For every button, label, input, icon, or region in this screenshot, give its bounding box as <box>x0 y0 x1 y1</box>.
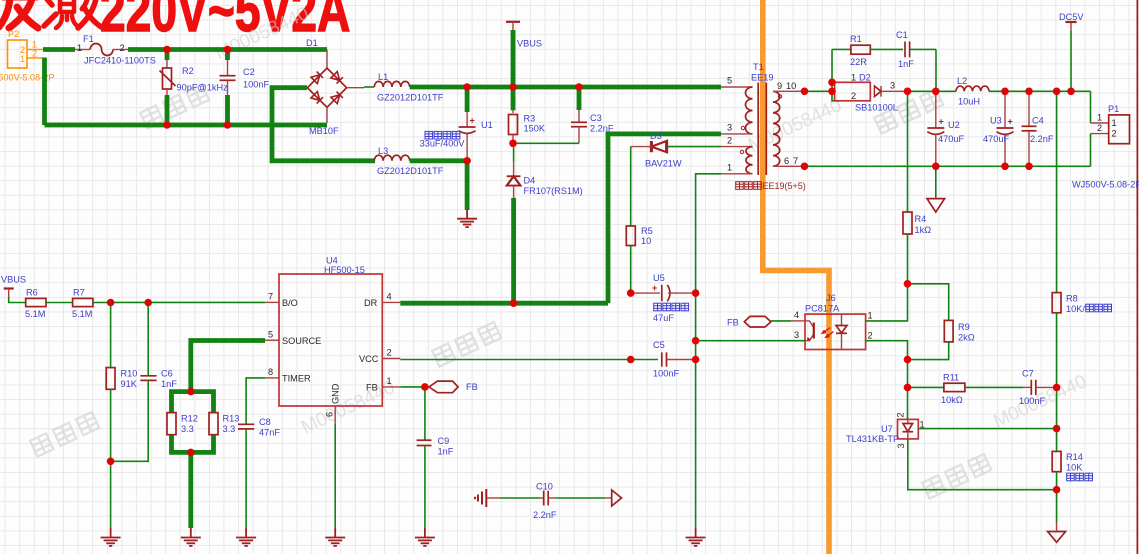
wire top AC rail <box>128 47 327 52</box>
svg-text:1nF: 1nF <box>898 59 914 69</box>
node junction U7 ref <box>1053 425 1061 433</box>
wire SOURCE net <box>191 341 265 392</box>
svg-text:33uF/400V: 33uF/400V <box>420 139 466 149</box>
optocoupler J6 PC817A <box>805 314 866 349</box>
node junction R11 row <box>904 384 912 392</box>
svg-text:2kΩ: 2kΩ <box>958 333 975 343</box>
electrolytic capacitor U3 470uF <box>1004 91 1006 127</box>
svg-text:SOURCE: SOURCE <box>282 336 321 346</box>
svg-text:2.2nF: 2.2nF <box>533 510 557 520</box>
svg-text:6: 6 <box>784 156 789 166</box>
node junction sec top <box>801 88 809 96</box>
sheet border right <box>1136 0 1138 554</box>
svg-text:VBUS: VBUS <box>517 39 542 49</box>
svg-text:GZ2012D101TF: GZ2012D101TF <box>377 166 444 176</box>
svg-text:1kΩ: 1kΩ <box>915 225 932 235</box>
node junction D2 out <box>904 88 912 96</box>
svg-text:10K: 10K <box>1066 463 1083 473</box>
svg-text:D1: D1 <box>306 38 318 48</box>
svg-text:+: + <box>1008 117 1013 127</box>
wire TIMER to C8 <box>246 378 265 424</box>
svg-text:6: 6 <box>325 412 335 417</box>
svg-text:1nF: 1nF <box>161 379 177 389</box>
wire U7 anode down and right <box>908 439 1057 490</box>
svg-text:+: + <box>939 117 944 127</box>
ground arrow bottom right <box>1048 532 1066 543</box>
resistor R4 1kOhm <box>907 91 909 212</box>
svg-text:R3: R3 <box>524 114 536 124</box>
node junction R10 <box>107 299 115 307</box>
wire opto pin3 <box>696 340 805 342</box>
svg-text:5: 5 <box>727 76 732 86</box>
svg-text:FB: FB <box>727 318 739 328</box>
wire VBUS rail <box>410 85 721 90</box>
capacitor C2 100nF <box>225 50 230 61</box>
wire transformer pin1 down <box>696 174 721 528</box>
capacitor C1 1nF <box>904 42 906 58</box>
svg-text:100nF: 100nF <box>243 80 269 90</box>
svg-text:L3: L3 <box>378 146 388 156</box>
node junction R12R13 top <box>187 388 195 396</box>
svg-text:GZ2012D101TF: GZ2012D101TF <box>377 93 444 103</box>
svg-text:C7: C7 <box>1022 369 1034 379</box>
svg-text:4: 4 <box>794 310 799 320</box>
resistor R3 150K <box>511 87 516 110</box>
svg-text:+: + <box>652 283 657 293</box>
svg-text:SB10100L: SB10100L <box>855 103 898 113</box>
svg-text:JFC2410-1100TS: JFC2410-1100TS <box>84 56 156 66</box>
wire R9 loop <box>908 284 949 321</box>
node junction D4/DR <box>510 299 518 307</box>
svg-text:100nF: 100nF <box>1019 396 1045 406</box>
diode D2 SB10100L <box>835 82 871 101</box>
resistor R8 10K <box>1056 91 1058 292</box>
bridge rectifier D1 MB10F <box>306 38 364 136</box>
node junction R14 bottom <box>1053 486 1061 494</box>
node junction bottom rail R2 <box>163 121 171 129</box>
node junction DC5V <box>1067 88 1075 96</box>
svg-text:C2: C2 <box>243 67 255 77</box>
wire FB flag to opto pin4 <box>771 320 791 322</box>
svg-text:VBUS: VBUS <box>1 275 26 285</box>
resistor R9 2kOhm <box>944 320 953 342</box>
svg-text:2: 2 <box>868 331 873 341</box>
transformer T1 EE19 <box>721 62 805 175</box>
svg-text:3: 3 <box>794 330 799 340</box>
wire to ground arrow <box>1056 490 1058 522</box>
svg-text:C8: C8 <box>259 417 271 427</box>
node junction top rail R2 <box>163 46 171 54</box>
capacitor C8 47nF <box>238 423 254 425</box>
node junction R3/C3/D4 <box>509 140 517 148</box>
svg-text:U3: U3 <box>990 116 1002 126</box>
svg-text:3: 3 <box>727 123 732 133</box>
node junction pin1/opto3 <box>692 337 700 345</box>
svg-text:P2: P2 <box>8 29 19 39</box>
electrolytic capacitor U2 470uF <box>935 91 937 127</box>
title glyph FAN <box>0 0 38 28</box>
capacitor C9 1nF <box>424 387 426 440</box>
svg-text:C6: C6 <box>161 369 173 379</box>
power flag DC5V <box>1070 31 1072 92</box>
capacitor C6 1nF <box>147 303 149 376</box>
svg-text:2.2nF: 2.2nF <box>1030 134 1054 144</box>
node junction D2 pin2 <box>828 88 836 96</box>
ground U1 <box>457 209 477 227</box>
node junction R9 bottom <box>904 356 912 364</box>
wire U4 FB pin <box>400 386 425 388</box>
ground arrow under U2 <box>935 166 937 198</box>
svg-text:+: + <box>470 116 475 126</box>
svg-text:47nF: 47nF <box>259 428 280 438</box>
svg-text:GND: GND <box>331 383 341 404</box>
svg-text:2: 2 <box>387 348 392 358</box>
svg-text:B/O: B/O <box>282 298 298 308</box>
resistor R12 3.3 <box>167 413 176 435</box>
orange route line <box>763 0 829 554</box>
resistor R5 10 <box>630 147 632 226</box>
svg-text:DC5V: DC5V <box>1059 12 1084 22</box>
resistor R14 10K <box>1052 451 1061 471</box>
wire U7 ref to R14 node <box>918 428 1056 430</box>
connector P2 <box>8 40 28 68</box>
node junction R10/C6 bottom <box>107 458 115 466</box>
wire R12R13 bottom bar <box>172 435 214 452</box>
svg-text:10K/: 10K/ <box>1066 304 1085 314</box>
svg-text:10kΩ: 10kΩ <box>941 395 963 405</box>
svg-text:1: 1 <box>1112 118 1117 128</box>
svg-text:2: 2 <box>896 412 906 417</box>
svg-text:HF500-15: HF500-15 <box>324 265 365 275</box>
svg-text:C4: C4 <box>1032 116 1044 126</box>
svg-text:J6: J6 <box>826 293 836 303</box>
diode D3 BAV21W <box>666 146 721 148</box>
resistor R11 10kOhm <box>908 386 944 388</box>
svg-text:3.3: 3.3 <box>223 424 236 434</box>
watermark wang-tian-chen left low <box>30 412 99 457</box>
node junction C4 bottom <box>1025 163 1033 171</box>
svg-text:TIMER: TIMER <box>282 374 311 384</box>
svg-text:91K: 91K <box>121 379 138 389</box>
wire U1 to ground <box>465 161 470 210</box>
resistor R10 91K <box>110 303 112 368</box>
svg-text:2: 2 <box>851 91 856 101</box>
svg-text:F1: F1 <box>83 34 94 44</box>
svg-text:7: 7 <box>793 156 798 166</box>
wire C3 bottom to R3 node <box>513 142 579 144</box>
IC U4 HF500-15 <box>279 274 382 406</box>
power flag VBUS top <box>506 21 520 23</box>
svg-text:T1: T1 <box>753 62 764 72</box>
svg-text:R12: R12 <box>181 414 198 424</box>
svg-text:10: 10 <box>786 81 796 91</box>
watermark wang-tian-chen left <box>140 84 209 129</box>
svg-text:5.1M: 5.1M <box>25 309 45 319</box>
resistor R1 22R <box>832 48 851 50</box>
wire bottom AC rail <box>45 123 328 128</box>
wire source to ground <box>188 452 193 528</box>
ground U4 <box>325 528 345 546</box>
svg-text:D4: D4 <box>524 176 536 186</box>
node junction R5/U5 <box>627 289 635 297</box>
label three-winding EE19(5+5) <box>736 181 806 191</box>
node junction U2 bottom <box>932 163 940 171</box>
node junction U1 top <box>463 83 471 91</box>
svg-text:R1: R1 <box>850 34 862 44</box>
svg-text:P1: P1 <box>1108 104 1119 114</box>
svg-text:DR: DR <box>364 298 378 308</box>
svg-text:2: 2 <box>1112 129 1117 139</box>
svg-text:R6: R6 <box>26 288 38 298</box>
svg-text:1: 1 <box>868 311 873 321</box>
ground R12R13 <box>181 528 201 546</box>
svg-text:TL431KB-TP: TL431KB-TP <box>846 434 899 444</box>
svg-text:7: 7 <box>268 292 273 302</box>
svg-text:EE19(5+5): EE19(5+5) <box>763 181 806 191</box>
svg-text:R7: R7 <box>73 288 85 298</box>
svg-text:R4: R4 <box>915 214 927 224</box>
svg-text:C10: C10 <box>536 482 553 492</box>
svg-text:47uF: 47uF <box>653 313 674 323</box>
svg-text:470uF: 470uF <box>938 134 964 144</box>
svg-text:R5: R5 <box>641 226 653 236</box>
wire P2 pin1 to fuse <box>43 47 75 52</box>
node junction bottom rail C2 <box>224 121 232 129</box>
svg-text:MB10F: MB10F <box>309 126 339 136</box>
wire opto pin1 to R4 node <box>866 284 908 321</box>
svg-text:L1: L1 <box>378 72 388 82</box>
svg-text:10: 10 <box>641 236 651 246</box>
svg-text:10uH: 10uH <box>958 97 980 107</box>
svg-text:22R: 22R <box>850 57 867 67</box>
resistor R6 5.1M <box>26 298 46 306</box>
svg-text:R8: R8 <box>1066 294 1078 304</box>
svg-text:1nF: 1nF <box>438 447 454 457</box>
node junction sec bottom <box>801 163 809 171</box>
svg-text:3.3: 3.3 <box>181 424 194 434</box>
shunt regulator U7 TL431KB-TP <box>907 419 909 424</box>
inductor L3 GZ2012D101TF <box>374 155 409 161</box>
svg-text:1: 1 <box>20 54 25 64</box>
svg-text:WJ500V-5.08-2P: WJ500V-5.08-2P <box>1072 180 1139 190</box>
svg-text:2: 2 <box>727 136 732 146</box>
wire P2 pin2 down to bottom rail <box>42 58 47 126</box>
wire snubber node vertical <box>805 90 833 92</box>
svg-text:U4: U4 <box>326 256 338 266</box>
wire output rail <box>908 90 957 92</box>
svg-text:R10: R10 <box>121 369 138 379</box>
svg-text:U2: U2 <box>948 120 960 130</box>
svg-text:R11: R11 <box>943 373 959 383</box>
node junction C4 <box>1025 88 1033 96</box>
wire drain DR line <box>400 301 608 306</box>
svg-text:U7: U7 <box>881 424 893 434</box>
svg-text:U5: U5 <box>653 273 665 283</box>
node junction R12R13 bottom <box>187 449 195 457</box>
fuse F1 JFC2410-1100TS <box>75 49 90 51</box>
svg-text:8: 8 <box>268 367 273 377</box>
node junction U3 <box>1001 88 1009 96</box>
resistor R13 3.3 <box>209 413 218 435</box>
node junction FB/C9 <box>421 383 429 391</box>
capacitor C7 100nF <box>1023 386 1031 388</box>
connector P1 WJ500V-5.08-2P <box>1090 91 1092 123</box>
wire opto pin2 down <box>866 341 908 420</box>
wire DC minus path around bridge <box>272 88 375 161</box>
wire output bottom rail <box>805 165 1091 167</box>
svg-text:1: 1 <box>77 43 82 53</box>
electrolytic capacitor U1 33uF/400V <box>465 87 470 112</box>
node junction pin1/U5 <box>692 289 700 297</box>
ground C9 <box>415 528 435 546</box>
watermark wang-tian-chen bottom right <box>922 454 991 499</box>
svg-text:C1: C1 <box>896 30 908 40</box>
svg-text:1: 1 <box>727 163 732 173</box>
node junction D2 pin1 <box>828 79 836 87</box>
svg-text:C9: C9 <box>438 436 450 446</box>
svg-text:150K: 150K <box>524 124 546 134</box>
svg-text:BAV21W: BAV21W <box>645 159 682 169</box>
node junction top rail C2 <box>224 46 232 54</box>
wire C1 down to rail <box>935 49 937 91</box>
svg-text:100nF: 100nF <box>653 369 679 379</box>
svg-text:D2: D2 <box>859 73 871 83</box>
svg-text:1: 1 <box>851 73 856 83</box>
capacitor C5 100nF <box>661 352 663 366</box>
svg-text:FR107(RS1M): FR107(RS1M) <box>524 186 583 196</box>
svg-text:1: 1 <box>1097 113 1102 123</box>
node junction C1/U2 <box>932 88 940 96</box>
node junction <box>463 157 471 165</box>
svg-text:L2: L2 <box>957 76 967 86</box>
inductor L2 10uH <box>956 86 989 91</box>
svg-text:R9: R9 <box>958 322 970 332</box>
svg-text:VCC: VCC <box>359 354 379 364</box>
node junction C6 <box>144 299 152 307</box>
wire output rail after L2 <box>989 90 1091 92</box>
svg-text:2: 2 <box>32 49 37 59</box>
svg-text:R13: R13 <box>223 414 240 424</box>
wire drain vertical to transformer pin3 <box>608 134 721 303</box>
node junction C7/R8 <box>1053 384 1061 392</box>
net flag FB left <box>429 381 458 393</box>
svg-text:3: 3 <box>896 443 906 448</box>
watermark wang-tian-chen near D2 <box>874 89 943 134</box>
svg-text:3: 3 <box>890 81 895 91</box>
ground R10 <box>101 528 121 546</box>
capacitor C3 2.2nF <box>577 87 582 110</box>
svg-text:FB: FB <box>366 383 378 393</box>
capacitor C4 2.2nF <box>1028 91 1030 126</box>
node junction pin1/C5 <box>692 356 700 364</box>
svg-text:9: 9 <box>777 81 782 91</box>
svg-text:4: 4 <box>387 292 392 302</box>
svg-text:R14: R14 <box>1066 452 1083 462</box>
ground bias winding <box>686 528 706 546</box>
electrolytic capacitor U5 47uF <box>631 292 660 294</box>
svg-text:U1: U1 <box>481 120 493 130</box>
wire R12R13 top bar <box>172 392 214 412</box>
node junction VBUS/R3 <box>509 83 517 91</box>
title glyph JI <box>44 0 103 28</box>
svg-text:C5: C5 <box>653 340 665 350</box>
svg-text:D3: D3 <box>650 131 662 141</box>
node junction C3 top <box>575 83 583 91</box>
capacitor C10 2.2nF with chassis and antenna <box>475 482 622 521</box>
svg-text:C3: C3 <box>590 113 602 123</box>
ground C8 <box>236 528 256 546</box>
svg-text:90pF@1kHz: 90pF@1kHz <box>177 83 229 93</box>
svg-text:5.1M: 5.1M <box>72 309 92 319</box>
wire D4 to drain line <box>511 198 516 303</box>
svg-text:EE19: EE19 <box>751 73 773 83</box>
node junction U3 bottom <box>1001 163 1009 171</box>
resistor R7 5.1M <box>73 298 93 306</box>
svg-text:PC817A: PC817A <box>805 304 840 314</box>
watermark wang-tian-chen mid <box>432 322 501 367</box>
net flag FB right <box>744 316 771 327</box>
varistor R2 90pF@1kHz <box>165 50 170 61</box>
svg-text:5: 5 <box>268 330 273 340</box>
svg-text:1: 1 <box>387 376 392 386</box>
node junction R8 <box>1053 88 1061 96</box>
node junction R4/R9/opto <box>904 280 912 288</box>
diode D4 FR107(RS1M) <box>513 143 515 162</box>
wire VCC line <box>400 359 658 361</box>
svg-text:R2: R2 <box>182 66 194 76</box>
svg-text:470uF: 470uF <box>983 134 1009 144</box>
node junction VCC/R5 <box>627 356 635 364</box>
inductor L1 GZ2012D101TF <box>364 86 374 88</box>
svg-text:2: 2 <box>120 43 125 53</box>
wire U4 GND pin to ground <box>334 424 336 528</box>
svg-text:2: 2 <box>1097 123 1102 133</box>
svg-text:FB: FB <box>466 382 478 392</box>
